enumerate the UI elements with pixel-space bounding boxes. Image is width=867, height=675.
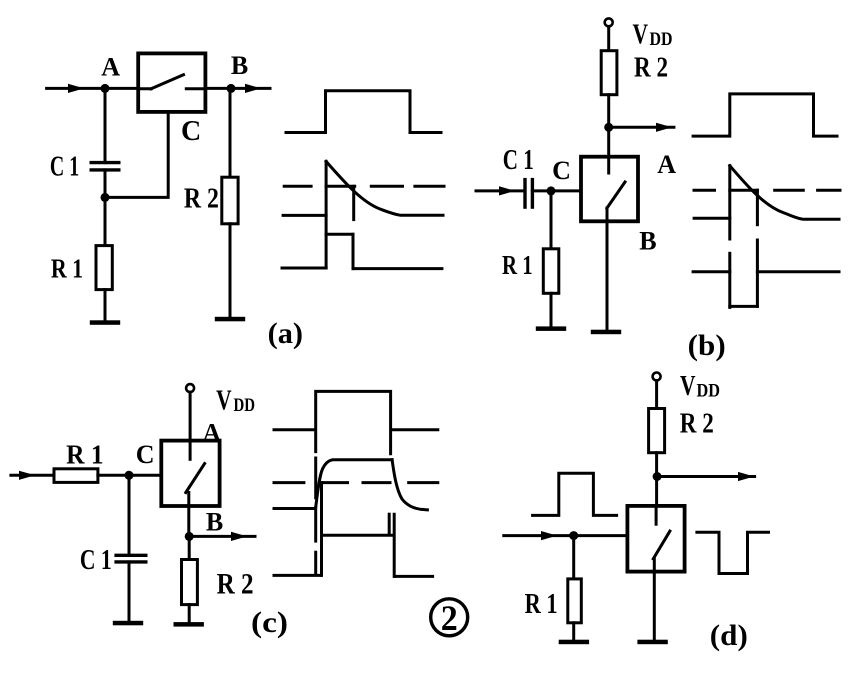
wire output (d) — [657, 475, 755, 478]
ground under R1 (b) — [536, 326, 566, 331]
svg-text:DD: DD — [234, 395, 256, 416]
wire C1 to box (b) — [532, 189, 581, 192]
waveform b: capacitor baseline — [694, 217, 730, 220]
wire B to R2 (a) — [229, 88, 232, 177]
label VDD (d) — [680, 371, 720, 402]
ground under box (d) — [637, 640, 667, 645]
svg-text:DD: DD — [650, 29, 673, 50]
wire C1 to junction (a) — [104, 170, 107, 198]
svg-text:B: B — [639, 226, 656, 255]
waveform b: crossing guide verticals — [756, 190, 759, 306]
ground under R2 (c) — [174, 622, 204, 627]
waveform b: threshold solid segment — [730, 189, 758, 192]
ground under R2 (a) — [215, 317, 245, 322]
wire input (c) — [11, 474, 54, 477]
svg-text:A: A — [202, 419, 221, 448]
arrowhead input (d) — [541, 531, 557, 540]
switch box U1 (a) — [138, 53, 205, 112]
VDD terminal (c) — [186, 384, 194, 392]
wire box to ground (b) — [606, 208, 609, 330]
resistor R1 (d) — [568, 579, 582, 623]
waveform c: threshold dashed line — [274, 481, 438, 484]
wire R1 to ground (a) — [104, 290, 107, 321]
svg-text:(b): (b) — [688, 329, 726, 362]
node C (b) — [547, 186, 556, 195]
resistor R1 (a) — [96, 246, 112, 290]
svg-text:A: A — [101, 53, 120, 82]
circled figure number 2 — [431, 598, 468, 638]
wire R1 to ground (b) — [550, 293, 553, 326]
wire R2 to ground (c) — [188, 605, 191, 623]
resistor R1 (b) — [543, 249, 559, 293]
waveform b: rising edge verticals — [728, 166, 731, 308]
wire input (a) — [47, 87, 139, 90]
resistor R2 (d) — [649, 409, 665, 453]
svg-text:2: 2 — [441, 598, 458, 638]
waveform b: threshold dashed line — [694, 189, 840, 192]
output pulse symbol (d) — [697, 532, 769, 573]
ground under R1 (a) — [90, 320, 120, 325]
waveform a: exponential decay curve — [326, 161, 443, 215]
wire R2 to box (b) — [607, 95, 610, 157]
arrowhead output (b) — [656, 123, 672, 132]
ground under box (b) — [591, 330, 621, 335]
wire VDD to box (c) — [189, 392, 192, 441]
svg-text:C 1: C 1 — [503, 145, 534, 176]
switch contacts and arm inside U1 (b) — [607, 157, 625, 208]
wire input (b) — [476, 189, 525, 192]
wire R1 to ground (d) — [572, 623, 575, 640]
svg-text:A: A — [657, 150, 676, 179]
svg-text:C 1: C 1 — [50, 152, 79, 183]
svg-text:B: B — [231, 51, 248, 80]
resistor R2 (c) — [182, 560, 198, 605]
waveform c: rise-time guide dashes — [314, 458, 317, 573]
wire VDD to R2 (d) — [655, 381, 658, 409]
waveform a: rising edge vertical — [325, 161, 328, 268]
waveform a: threshold solid segment — [326, 185, 355, 188]
svg-text:V: V — [680, 371, 696, 402]
svg-text:DD: DD — [697, 381, 721, 402]
switch box U1 (b) — [581, 157, 638, 222]
capacitor C1 (a) — [90, 163, 121, 170]
waveform c: charging curve — [316, 460, 392, 507]
node A (a) — [101, 84, 110, 93]
label VDD (c) — [216, 386, 255, 417]
waveform b: input pulse — [693, 94, 837, 136]
switch box U1 (d) — [627, 506, 684, 572]
waveform c: discharging curve — [392, 460, 427, 510]
output node (d) — [653, 472, 662, 481]
waveform c: input pulse top and edges — [316, 391, 391, 453]
arrowhead input (b) — [499, 186, 515, 195]
output node (b) — [604, 123, 613, 132]
capacitor C1 (b) — [525, 178, 532, 209]
svg-text:R 2: R 2 — [634, 52, 668, 84]
waveform a: output pulse — [282, 234, 442, 268]
node B (a) — [227, 84, 236, 93]
ground under C1 (c) — [113, 621, 143, 626]
switch contacts and arm inside U1 (d) — [653, 506, 670, 559]
wire output (c) — [189, 535, 255, 538]
waveform c: output fall vertical — [393, 514, 396, 576]
capacitor C1 (c) — [114, 555, 147, 562]
waveform c: output rise vertical — [320, 483, 323, 576]
wire node to R1 (d) — [572, 536, 575, 579]
wire junction to R1 (a) — [104, 197, 107, 245]
waveform b: exponential decay curve — [730, 166, 839, 220]
resistor R2 (a) — [222, 177, 238, 224]
svg-text:R 2: R 2 — [184, 183, 219, 215]
svg-text:V: V — [633, 20, 649, 51]
arrowhead input (a) — [68, 84, 84, 93]
svg-text:R 2: R 2 — [217, 568, 254, 601]
svg-text:R 2: R 2 — [680, 408, 714, 440]
VDD terminal (d) — [653, 373, 661, 381]
input node (d) — [569, 531, 578, 540]
waveform c: capacitor baseline — [274, 507, 315, 510]
resistor R1 (c) — [54, 469, 98, 483]
wire R1 to box (c) — [98, 474, 161, 477]
arrowhead input (c) — [19, 471, 35, 480]
node C (c) — [125, 471, 134, 480]
svg-text:V: V — [216, 386, 232, 417]
svg-text:(a): (a) — [268, 317, 303, 350]
wire R2 to box (d) — [655, 453, 658, 506]
wire input (d) — [504, 534, 628, 537]
switch contacts and arm inside U1 (c) — [186, 441, 205, 493]
waveform c: output low lines — [274, 575, 433, 576]
svg-text:(c): (c) — [251, 606, 288, 639]
input pulse symbol (d) — [533, 473, 617, 515]
svg-text:R 1: R 1 — [502, 250, 533, 280]
wire A to C1 (a) — [104, 88, 107, 162]
svg-text:R 1: R 1 — [525, 588, 558, 620]
wire node B to R2 (c) — [188, 536, 191, 559]
label VDD (b) — [633, 20, 673, 51]
switch contacts and arm inside U1 (a) — [138, 75, 205, 89]
waveform c: output high line — [323, 534, 394, 537]
waveform a: crossing guide vertical — [352, 186, 355, 219]
svg-text:C: C — [181, 116, 201, 147]
waveform b: output inverted pulse — [693, 272, 839, 307]
VDD terminal (b) — [605, 18, 613, 26]
waveform a: threshold dashed line — [284, 185, 444, 188]
wire node to C1 (c) — [128, 475, 131, 555]
svg-text:(d): (d) — [710, 619, 748, 652]
ground under R1 (d) — [559, 640, 589, 645]
wire output (a) — [205, 87, 270, 90]
wire box to node B (c) — [187, 493, 190, 537]
svg-text:C 1: C 1 — [80, 545, 112, 576]
wire box to ground (d) — [653, 559, 656, 640]
wire VDD to R2 (b) — [607, 26, 610, 50]
waveform c: input mid lines — [274, 428, 438, 431]
svg-text:C: C — [136, 440, 155, 469]
waveform a: capacitor baseline — [283, 214, 326, 217]
wire output (b) — [609, 126, 674, 129]
svg-text:R 1: R 1 — [51, 253, 83, 283]
svg-text:B: B — [206, 508, 223, 537]
svg-text:C: C — [552, 156, 571, 185]
junction node (a) — [101, 193, 110, 202]
switch box U1 (c) — [161, 441, 219, 506]
control wire C from box to junction (a) — [105, 112, 168, 197]
waveform a: input pulse — [286, 91, 441, 133]
arrowhead output (d) — [738, 472, 754, 481]
node B (c) — [185, 532, 194, 541]
svg-text:R 1: R 1 — [66, 439, 104, 469]
resistor R2 (b) — [601, 51, 617, 95]
arrowhead output (a) — [245, 84, 261, 93]
wire R2 to ground (a) — [229, 224, 232, 317]
wire node C to R1 (b) — [550, 191, 553, 249]
wire C1 to ground (c) — [128, 562, 131, 621]
arrowhead output (c) — [231, 532, 247, 541]
waveform c: fall-time guide dash — [388, 514, 391, 533]
